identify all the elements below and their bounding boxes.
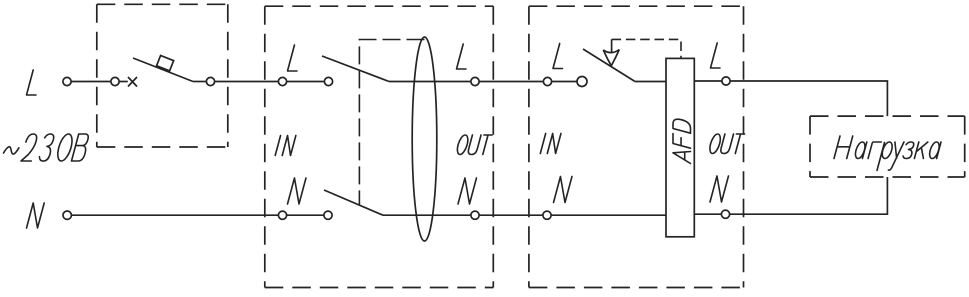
terminal RCD L contact — [324, 77, 332, 85]
AFDD trip arrow — [603, 39, 619, 65]
terminal breaker L in — [111, 77, 119, 85]
node N supply label — [27, 203, 45, 228]
wire L supply — [72, 81, 111, 83]
terminal RCD N contact — [324, 211, 332, 219]
wire RCD to AFDD L — [480, 81, 544, 83]
RCD switch blade L — [322, 56, 389, 82]
terminal RCD L in — [278, 77, 286, 85]
label N AFDD in — [554, 177, 572, 203]
wire RCD N in — [287, 214, 324, 216]
wire breaker to RCD — [215, 81, 278, 83]
wire AFDD N out — [694, 213, 721, 215]
wire AFDD L in — [552, 81, 577, 83]
terminal AFDD L out — [722, 77, 730, 85]
label IN RCD — [275, 136, 296, 156]
terminal AFDD L contact — [577, 77, 587, 87]
terminal breaker L out — [206, 77, 214, 85]
wire N to load — [730, 177, 887, 214]
label N RCD in — [288, 178, 306, 204]
RCD switch blade N — [324, 190, 383, 215]
terminal AFDD N in — [543, 211, 551, 219]
label L RCD in — [288, 45, 298, 71]
wire breaker input — [120, 81, 128, 83]
label L AFDD out — [711, 43, 721, 68]
label N AFDD out — [710, 176, 728, 202]
AFDD trip linkage (dashed) — [612, 39, 681, 58]
breaker release rectangle — [157, 56, 174, 71]
terminal N supply — [63, 211, 71, 219]
wire RCD N out — [383, 214, 471, 216]
terminal L supply — [63, 77, 71, 85]
wire breaker blade to terminal — [193, 81, 206, 83]
label L RCD out — [457, 44, 467, 69]
RCD trip linkage (dashed) — [359, 40, 424, 205]
wire L to load — [731, 81, 888, 116]
supply voltage label ~230V — [4, 134, 89, 161]
wire RCD L in — [287, 81, 324, 83]
AFDD switch blade — [583, 49, 635, 82]
wire AFDD blade to block — [635, 81, 666, 83]
wire AFDD L out — [694, 80, 721, 82]
wire RCD L out — [389, 81, 471, 83]
breaker switch blade — [133, 58, 193, 82]
label N RCD out — [458, 178, 476, 204]
AFD block — [666, 58, 694, 236]
terminal RCD N out — [471, 211, 479, 219]
wire AFDD N to block — [552, 214, 667, 216]
breaker fixed contact X — [128, 77, 137, 87]
node L supply label — [27, 70, 37, 95]
label OUT AFDD — [710, 134, 745, 154]
terminal AFDD N out — [721, 210, 729, 218]
terminal RCD N in — [278, 211, 286, 219]
circuit breaker enclosure (dashed box) — [97, 4, 228, 147]
terminal AFDD L in — [543, 77, 551, 85]
label OUT RCD — [457, 135, 492, 155]
load enclosure (dashed box) — [810, 116, 965, 177]
wire N supply to RCD — [71, 214, 278, 216]
AFDD enclosure (dashed box) — [529, 6, 744, 287]
AFD block label — [673, 119, 691, 163]
load label Nagruzka — [834, 136, 941, 170]
differential transformer (ellipse) — [412, 37, 437, 241]
terminal RCD L out — [471, 77, 479, 85]
label IN AFDD — [540, 134, 561, 154]
wire RCD to AFDD N — [480, 214, 543, 216]
label L AFDD in — [553, 44, 563, 69]
RCD enclosure (dashed box) — [265, 6, 494, 287]
